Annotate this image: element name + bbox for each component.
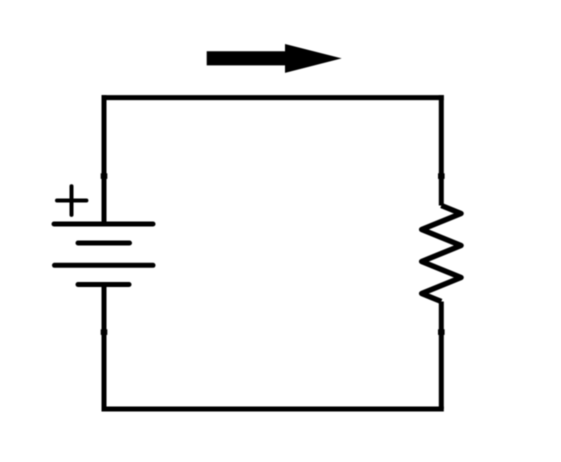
wire: right vertical lower (resistor to bottom-right corner) xyxy=(439,302,444,410)
wire: bottom horizontal xyxy=(104,407,441,412)
wire: left vertical upper (battery + terminal to top-left corner) xyxy=(102,95,107,224)
battery B1 plate 1 (long, positive) xyxy=(54,222,153,227)
junction on left wire (lower) xyxy=(101,329,108,335)
plus sign (+ terminal label) xyxy=(57,186,86,215)
wire: top horizontal xyxy=(104,95,441,100)
wire: left vertical lower (battery - terminal to bottom-left corner) xyxy=(102,285,107,410)
battery B1 plate 2 (short) xyxy=(78,241,130,246)
resistor R1 (zigzag) xyxy=(422,206,461,302)
wire: right vertical upper (top-right corner to resistor) xyxy=(439,95,444,205)
junction on right wire (lower) xyxy=(438,329,445,335)
battery B1 plate 3 (long) xyxy=(55,263,154,268)
junction on right wire (upper) xyxy=(438,173,445,179)
current direction arrow xyxy=(207,44,342,73)
battery B1 plate 4 (short, negative) xyxy=(78,282,129,287)
junction on left wire (upper) xyxy=(101,173,108,179)
